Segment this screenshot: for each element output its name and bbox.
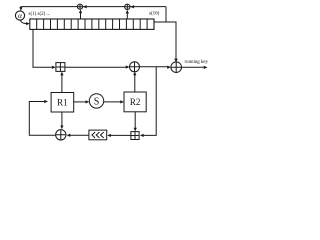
rotate-left box <<< [89, 130, 107, 140]
wire: LFSR feedback top line [19, 7, 166, 11]
wire: arrowhead into left top XOR [83, 5, 87, 8]
wire: tap from register up to left top XOR [79, 9, 82, 19]
wire: R2 down into adder 2 [134, 112, 137, 132]
wire: tap from first cell down to adder 1 [33, 29, 56, 69]
svg-text:R2: R2 [130, 97, 141, 107]
svg-text:S: S [94, 96, 100, 107]
register R2 [124, 92, 146, 112]
wire: R1 up into adder 1 [60, 72, 63, 93]
adder 1 (modular add, top) [56, 63, 65, 72]
XOR U2 (running key xor) [171, 62, 182, 73]
wire: s(16) output to running-key XOR [154, 22, 178, 62]
wire: XOR U3 feedback loop to R1 [29, 100, 55, 135]
wire: adder 1 output to XOR U1 [65, 65, 130, 68]
wire: running key output [182, 66, 208, 69]
svg-text:R1: R1 [57, 98, 68, 108]
adder 2 (modular add, bottom) [131, 132, 139, 140]
wire: R1 to S-box [74, 100, 90, 103]
svg-text:s(1) s(2) ...: s(1) s(2) ... [29, 12, 51, 17]
LFSR shift register (18 cells) [30, 19, 154, 29]
wire: XOR U1 to XOR U2 [140, 66, 171, 69]
wire: adder 2 to rotate box [107, 134, 131, 137]
wire: R2 up into XOR U1 [133, 72, 136, 93]
wire: rotate box to XOR U3 [67, 134, 89, 137]
svg-text:s(16): s(16) [149, 12, 160, 17]
XOR gate on feedback line (left) [77, 4, 82, 9]
svg-text:running key: running key [185, 60, 209, 65]
wire: FSM output fork down to adder 2 [140, 67, 156, 137]
multiplier alpha [15, 11, 24, 20]
wire: S-box to R2 [104, 100, 124, 103]
XOR U3 (bottom left xor) [56, 130, 66, 140]
XOR gate on feedback line (right) [125, 4, 130, 9]
wire: arrowhead into right top XOR [130, 5, 134, 8]
S-box S [89, 94, 103, 108]
wire: feedback riser from s16 line to top line [165, 7, 167, 22]
register R1 [51, 93, 74, 113]
wire: tap from register up to right top XOR [126, 10, 129, 19]
wire: R1 down into XOR U3 [60, 112, 63, 129]
wire: alpha output into register [21, 20, 30, 25]
XOR U1 (FSM output xor) [130, 62, 140, 72]
